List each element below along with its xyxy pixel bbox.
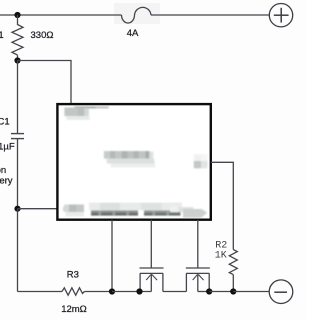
node battery minus junction: [14, 206, 20, 212]
resistor R1 zigzag: [12, 25, 23, 56]
wire R2 to bottom rail: [232, 275, 234, 292]
wire M2 body to M2 source node: [198, 291, 209, 293]
wire left rail C1 to lower junction: [17, 139, 19, 209]
node M2 source junction: [206, 288, 212, 294]
svg-text:R1: R1: [0, 30, 4, 41]
blurred text block right of IC: [194, 154, 208, 168]
wire IC bottom pin1 to bottom rail: [111, 220, 113, 292]
blurred text block bottom-right in IC: [170, 207, 207, 218]
blurred text band bottom-center in IC: [89, 203, 182, 216]
terminal + positive: [269, 4, 292, 27]
wire left rail upper segment: [17, 15, 19, 25]
capacitor C1: [11, 134, 24, 139]
blurred text block bottom-left in IC: [63, 205, 85, 217]
node M1 source junction: [136, 288, 142, 294]
blurred text block top-left in IC: [64, 106, 108, 120]
svg-text:1K: 1K: [215, 250, 227, 261]
wire M1 gate from IC: [150, 220, 152, 268]
wire top rail left: [0, 14, 122, 16]
transistor Q1 MOSFET: [140, 268, 164, 292]
resistor R3 zigzag: [62, 288, 85, 295]
wire M2 gate from IC: [197, 220, 199, 268]
right white margin strip: [306, 0, 320, 320]
svg-text:Li-Ion: Li-Ion: [0, 165, 6, 176]
wire M1 drain to M2 drain: [163, 291, 187, 293]
wire junction to IC top pin: [18, 61, 72, 105]
transistor Q2 MOSFET: [186, 268, 210, 292]
wire left rail to bottom rail: [17, 209, 19, 292]
wire left rail to C1 top plate: [17, 61, 19, 134]
wire R2 node to minus terminal: [233, 291, 269, 293]
resistor R2 zigzag: [229, 250, 237, 275]
op-amp U1 protection IC box: [57, 104, 210, 220]
node: top-left junction: [14, 12, 20, 18]
svg-text:C1: C1: [0, 117, 10, 128]
wire bottom rail battery to R3: [18, 291, 63, 293]
svg-text:battery: battery: [0, 176, 13, 187]
wire junction to IC left pin: [18, 208, 58, 210]
svg-text:R3: R3: [67, 270, 79, 281]
wire R1 to junction: [17, 55, 19, 60]
node R2 bottom junction: [230, 288, 236, 294]
svg-text:4A: 4A: [127, 28, 139, 39]
blurred text block center of IC: [104, 151, 155, 168]
wire M2 source to R2 node: [209, 291, 233, 293]
fuse highlight background: [114, 3, 160, 24]
terminal - negative: [269, 280, 293, 304]
node below R1: [14, 57, 20, 63]
fuse F1: [122, 7, 152, 23]
svg-text:330Ω: 330Ω: [31, 30, 54, 41]
wire R3 to sense node: [85, 291, 113, 293]
svg-text:12mΩ: 12mΩ: [61, 304, 87, 315]
wire top rail right: [151, 14, 270, 16]
wire IC right pin to R2: [211, 162, 234, 249]
wire sense node to M1 source: [112, 291, 151, 293]
node sense junction: [109, 288, 115, 294]
svg-text:.1µF: .1µF: [0, 142, 15, 153]
